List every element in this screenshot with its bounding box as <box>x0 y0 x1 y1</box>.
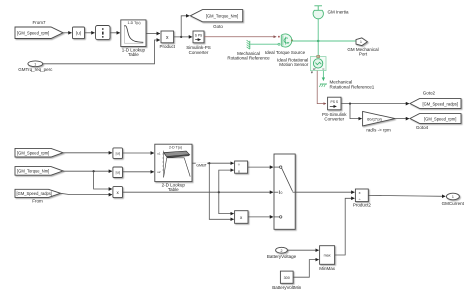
svg-text:Goto4: Goto4 <box>416 125 429 130</box>
svg-text:1: 1 <box>452 195 454 199</box>
wire lookup to Product <box>146 33 160 35</box>
constant 300 BatteryVoltMin <box>272 271 302 290</box>
wire product3 to switch in3 <box>248 216 273 218</box>
minmax block max <box>319 246 336 271</box>
svg-text:PS S: PS S <box>331 100 339 104</box>
wire port2 to minmax in1 <box>287 249 318 251</box>
svg-text:2-D T(u): 2-D T(u) <box>169 146 182 150</box>
svg-text:[GM_Speed_rpm]: [GM_Speed_rpm] <box>424 116 456 121</box>
svg-text:1-D T(u): 1-D T(u) <box>128 21 141 25</box>
green wire reference to torque source <box>250 43 280 45</box>
wire Product out to S-PS and branch to Goto <box>174 16 193 38</box>
mechanical rotational reference1 <box>319 80 374 90</box>
wire product2 to output port <box>368 194 445 197</box>
wire abs1 to 2-D lookup u1 <box>123 152 154 154</box>
product block x (power) <box>113 187 123 198</box>
svg-text:Converter: Converter <box>324 117 344 122</box>
PS wire sensor W to PS-simulink converter <box>317 71 326 104</box>
svg-text:MinMax: MinMax <box>319 266 336 271</box>
svg-text:Goto2: Goto2 <box>423 90 436 95</box>
gain 60/(2*pi) <box>363 111 395 132</box>
mechanical rotational reference <box>227 40 270 61</box>
svg-text:Port: Port <box>359 52 368 57</box>
product2 block <box>353 189 372 208</box>
svg-text:|u|: |u| <box>116 170 120 175</box>
svg-text:[GM_Torque_Nm]: [GM_Torque_Nm] <box>206 14 238 19</box>
abs block |u| (2) <box>113 167 123 178</box>
svg-text:1: 1 <box>360 40 362 44</box>
svg-text:Rotational Reference1: Rotational Reference1 <box>330 84 375 89</box>
green vertical wire inertia through junction to sensor <box>317 19 319 56</box>
svg-text:60/(2*pi): 60/(2*pi) <box>367 116 382 121</box>
ps-simulink converter <box>322 97 347 121</box>
abs block |u| (1) <box>113 148 123 159</box>
wire From7 to Abs <box>63 32 72 34</box>
ideal rotational motion sensor <box>277 55 326 73</box>
goto tag Goto2 [GM_Speed_radps] <box>410 90 461 108</box>
GM mechanical port <box>347 38 378 57</box>
svg-text:Goto: Goto <box>213 24 223 29</box>
svg-text:BatteryVoltMin: BatteryVoltMin <box>272 285 302 290</box>
svg-text:GMTrq_req_perc: GMTrq_req_perc <box>18 67 53 72</box>
svg-text:|u|: |u| <box>116 151 120 156</box>
wire to abs1 <box>63 152 112 154</box>
svg-text:From7: From7 <box>32 20 45 25</box>
wire gain to Goto4 <box>395 118 409 120</box>
svg-text:Rotational Reference: Rotational Reference <box>227 56 270 61</box>
wire from tag to product in2 <box>61 193 113 194</box>
goto tag Goto4 [GM_Speed_rpm] <box>410 114 461 130</box>
svg-text:x: x <box>238 169 240 173</box>
svg-text:Motion Sensor: Motion Sensor <box>279 62 309 67</box>
input port 2 BatteryVoltage <box>267 247 297 259</box>
wire abs2 to 2-D lookup u2 <box>123 171 154 173</box>
input port 1 GMTrq_req_perc <box>18 61 53 72</box>
svg-text:x: x <box>359 191 361 195</box>
wire divide to switch in1 <box>248 166 274 168</box>
svg-text:max: max <box>324 254 331 258</box>
switch block <box>274 154 295 229</box>
green wire sensor to reference1 <box>322 71 324 81</box>
from tag From7 [GM_Speed_rpm] <box>15 20 63 38</box>
svg-text:Converter: Converter <box>189 50 209 55</box>
product block Product <box>160 31 176 49</box>
svg-text:Table: Table <box>128 52 139 57</box>
svg-text:GMEff: GMEff <box>196 164 206 168</box>
product block x (Product3) <box>235 211 248 224</box>
power wire product to switch in2 with branches <box>123 170 274 214</box>
svg-text:u2: u2 <box>157 170 161 174</box>
svg-text:From: From <box>32 199 43 204</box>
svg-text:2: 2 <box>281 249 283 253</box>
abs block |u| <box>73 27 85 39</box>
from tag [GM_Torque_Nm] (bottom) <box>15 167 63 176</box>
goto tag Goto [GM_Torque_Nm] <box>190 10 242 29</box>
wire minmax to product2 in2 <box>335 198 355 255</box>
svg-text:[GM_Speed_radps]: [GM_Speed_radps] <box>422 102 458 107</box>
svg-text:Product2: Product2 <box>353 203 372 208</box>
svg-text:GM Inertia: GM Inertia <box>328 10 350 15</box>
wire port1 to Product in2 <box>43 40 160 64</box>
simulink-ps converter <box>186 31 211 55</box>
output port 1 GMCurrent <box>442 193 465 206</box>
wire quantizer to 1-D lookup <box>110 32 120 34</box>
svg-text:Product: Product <box>160 44 176 49</box>
svg-text:1: 1 <box>34 62 36 66</box>
svg-text:[GM_Speed_rpm]: [GM_Speed_rpm] <box>17 31 49 36</box>
green wire torque source to GM mechanical port <box>292 40 356 42</box>
svg-text:|u|: |u| <box>76 31 81 36</box>
svg-text:Table: Table <box>168 187 179 192</box>
wire switch to product2 <box>295 191 354 193</box>
PS wire S-PS converter to torque source <box>204 36 280 38</box>
svg-text:0: 0 <box>281 191 283 195</box>
GM inertia <box>313 6 349 19</box>
svg-text:BatteryVoltage: BatteryVoltage <box>267 254 297 259</box>
svg-text:Ideal Torque Source: Ideal Torque Source <box>265 50 306 55</box>
svg-text:u1: u1 <box>157 151 161 155</box>
wire constant to minmax in2 <box>293 260 319 278</box>
ideal torque source U <box>265 34 306 55</box>
svg-text:GMCurrent: GMCurrent <box>442 201 465 206</box>
1-D lookup table block <box>121 20 146 57</box>
svg-text:S PS: S PS <box>195 33 203 37</box>
2-D lookup table block <box>155 144 192 192</box>
svg-text:[GM_Speed_rpm]: [GM_Speed_rpm] <box>17 151 49 156</box>
wire to abs2 with branch to product <box>63 170 112 189</box>
wire converter out to Goto2 with branch to gain <box>341 103 409 119</box>
svg-text:300: 300 <box>284 276 290 280</box>
svg-text:[GM_Speed_radps]: [GM_Speed_radps] <box>17 191 53 196</box>
wire abs to quantizer <box>85 32 95 34</box>
wire 2-D lookup out GMEff to divide with branches <box>192 162 234 219</box>
quantizer block <box>96 26 111 40</box>
divide block <box>235 161 248 173</box>
from tag From [GM_Speed_radps] <box>15 189 61 203</box>
svg-text:[GM_Torque_Nm]: [GM_Torque_Nm] <box>17 169 49 174</box>
svg-text:rad/s -> rpm: rad/s -> rpm <box>366 128 391 133</box>
from tag [GM_Speed_rpm] (bottom) <box>15 148 63 157</box>
